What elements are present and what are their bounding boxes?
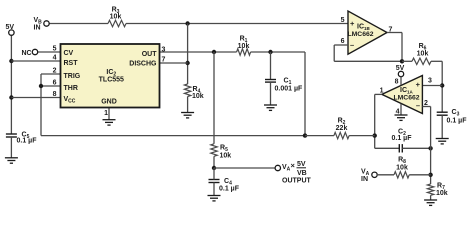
- svg-text:–: –: [416, 101, 420, 110]
- svg-text:LMC662: LMC662: [347, 31, 373, 38]
- svg-text:6: 6: [341, 38, 345, 45]
- svg-text:8: 8: [53, 91, 57, 98]
- svg-text:OUT: OUT: [142, 51, 158, 58]
- svg-text:10k: 10k: [192, 93, 204, 100]
- svg-text:5V: 5V: [396, 65, 405, 72]
- svg-text:CV: CV: [64, 50, 74, 57]
- svg-text:8: 8: [395, 79, 399, 86]
- svg-text:LMC662: LMC662: [393, 94, 419, 101]
- svg-text:OUTPUT: OUTPUT: [282, 177, 312, 184]
- svg-text:0.1 µF: 0.1 µF: [219, 186, 240, 193]
- svg-text:0.1 µF: 0.1 µF: [392, 135, 413, 142]
- svg-text:IN: IN: [34, 25, 41, 32]
- svg-text:0.001 µF: 0.001 µF: [275, 86, 303, 93]
- svg-text:DISCHG: DISCHG: [129, 60, 157, 67]
- svg-text:4: 4: [396, 109, 400, 116]
- svg-text:10k: 10k: [417, 51, 429, 58]
- svg-text:IN: IN: [361, 176, 368, 183]
- svg-text:6: 6: [53, 80, 57, 87]
- svg-text:+: +: [350, 19, 355, 28]
- svg-text:TLC555: TLC555: [99, 76, 124, 83]
- svg-text:–: –: [350, 41, 354, 50]
- svg-text:2: 2: [53, 68, 57, 75]
- svg-text:7: 7: [162, 57, 166, 64]
- svg-text:7: 7: [389, 27, 393, 34]
- svg-text:2: 2: [424, 100, 428, 107]
- svg-text:10k: 10k: [238, 43, 250, 50]
- svg-text:5V: 5V: [6, 24, 15, 31]
- svg-text:0.1 µF: 0.1 µF: [447, 118, 468, 125]
- svg-text:1: 1: [380, 88, 384, 95]
- svg-text:0.1 µF: 0.1 µF: [17, 138, 38, 145]
- svg-text:RST: RST: [64, 60, 79, 67]
- svg-text:10k: 10k: [110, 13, 122, 20]
- svg-text:×: ×: [291, 161, 296, 170]
- svg-text:22k: 22k: [336, 125, 348, 132]
- svg-text:+: +: [416, 80, 421, 89]
- svg-text:THR: THR: [64, 85, 78, 92]
- svg-text:10k: 10k: [220, 153, 232, 160]
- svg-text:5: 5: [341, 17, 345, 24]
- svg-text:3: 3: [428, 78, 432, 85]
- svg-text:3: 3: [162, 46, 166, 53]
- svg-text:VB: VB: [297, 170, 307, 177]
- svg-text:1: 1: [104, 110, 108, 117]
- svg-text:5: 5: [53, 46, 57, 53]
- svg-text:4: 4: [53, 55, 57, 62]
- svg-text:10k: 10k: [436, 190, 448, 197]
- svg-text:NC: NC: [22, 50, 32, 57]
- svg-text:GND: GND: [101, 98, 117, 105]
- svg-text:10k: 10k: [396, 165, 408, 172]
- svg-text:5V: 5V: [297, 161, 306, 168]
- svg-text:TRIG: TRIG: [64, 73, 81, 80]
